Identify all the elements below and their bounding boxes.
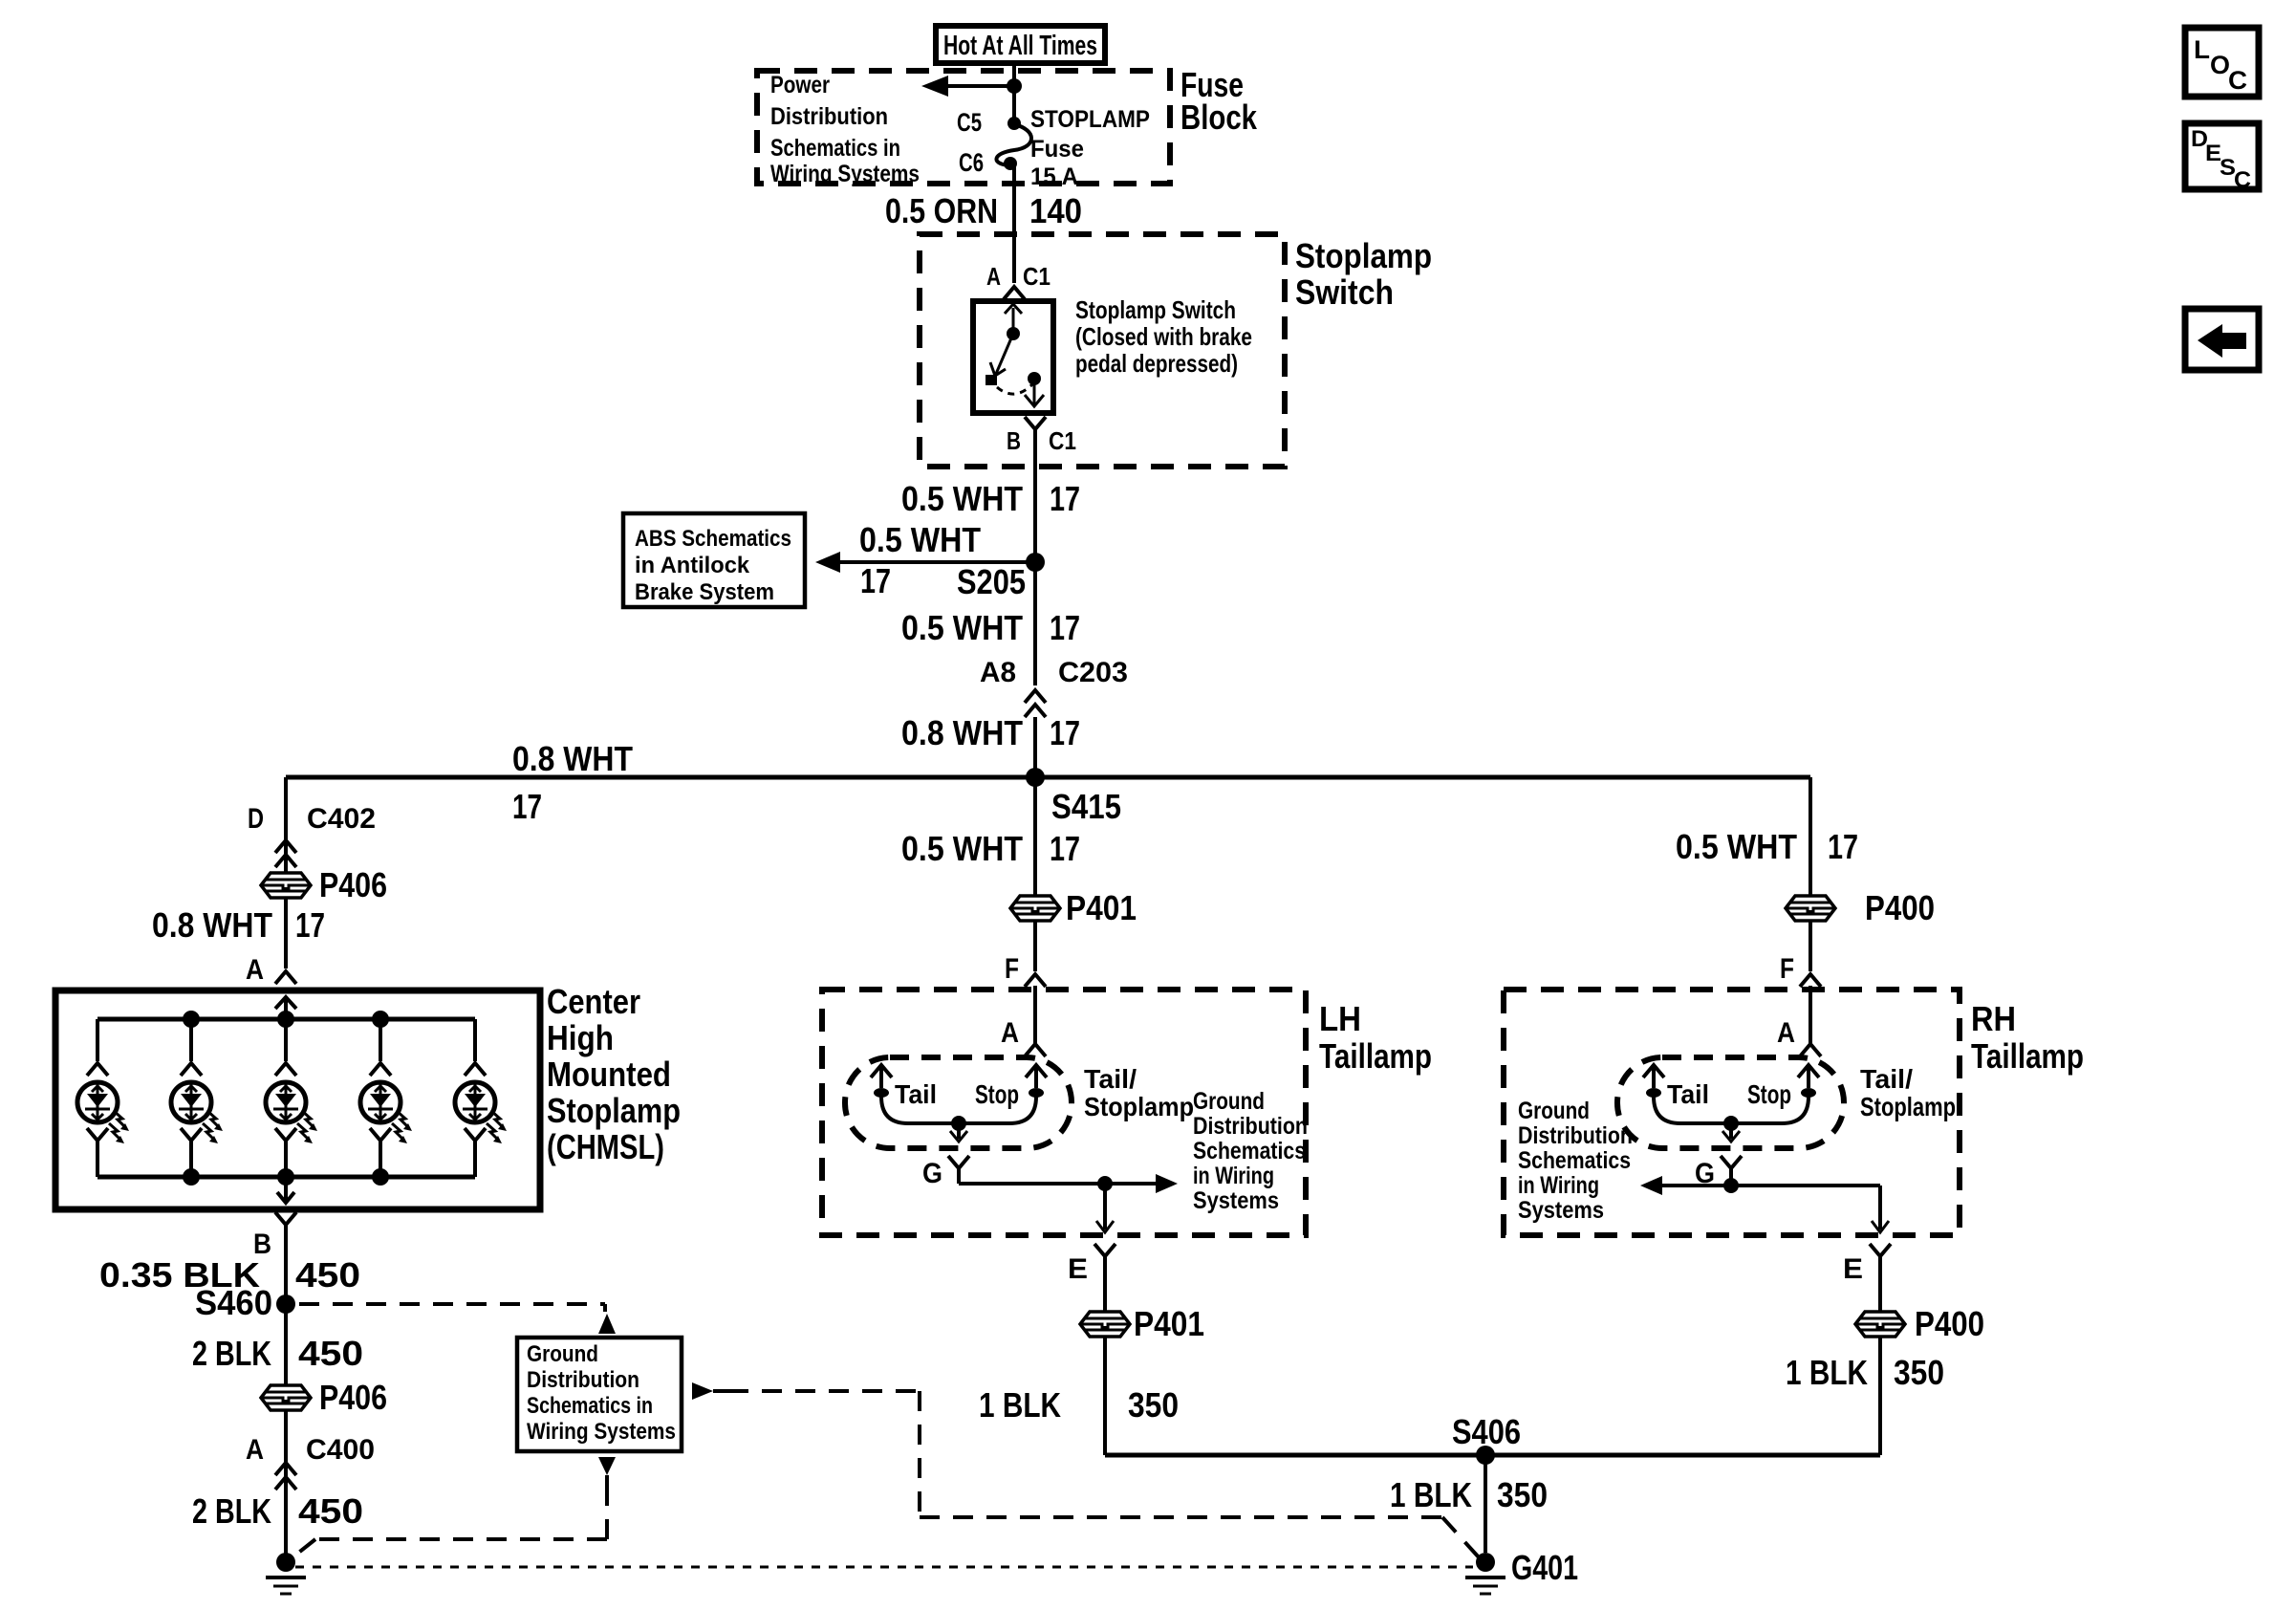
svg-text:A: A xyxy=(1777,1017,1795,1049)
svg-text:17: 17 xyxy=(1828,827,1858,866)
svg-text:C: C xyxy=(2228,66,2247,95)
svg-text:S460: S460 xyxy=(195,1283,272,1322)
svg-text:C1: C1 xyxy=(1023,262,1051,291)
svg-text:450: 450 xyxy=(298,1334,363,1373)
svg-text:350: 350 xyxy=(1497,1475,1548,1514)
svg-text:0.5 WHT: 0.5 WHT xyxy=(901,479,1023,518)
svg-text:Distribution: Distribution xyxy=(770,103,888,130)
svg-text:Stoplamp: Stoplamp xyxy=(1084,1092,1194,1121)
svg-text:17: 17 xyxy=(512,787,542,826)
svg-text:S205: S205 xyxy=(957,562,1026,601)
svg-text:0.8 WHT: 0.8 WHT xyxy=(152,905,272,945)
svg-text:Block: Block xyxy=(1180,98,1258,137)
svg-text:P406: P406 xyxy=(319,865,387,904)
svg-text:A: A xyxy=(986,262,1001,291)
svg-text:Ground: Ground xyxy=(1518,1098,1590,1124)
svg-text:ABS Schematics: ABS Schematics xyxy=(635,526,791,552)
svg-text:A: A xyxy=(246,954,264,986)
svg-text:Ground: Ground xyxy=(527,1341,598,1367)
svg-text:Tail/: Tail/ xyxy=(1084,1064,1137,1094)
svg-text:C203: C203 xyxy=(1058,657,1128,688)
svg-text:Stop: Stop xyxy=(975,1079,1019,1109)
svg-text:Distribution: Distribution xyxy=(1518,1122,1633,1149)
svg-text:0.8 WHT: 0.8 WHT xyxy=(901,713,1023,752)
svg-text:High: High xyxy=(547,1018,614,1057)
svg-text:0.5 WHT: 0.5 WHT xyxy=(1676,827,1797,866)
svg-text:Wiring Systems: Wiring Systems xyxy=(770,161,920,187)
svg-text:Stop: Stop xyxy=(1747,1079,1791,1109)
svg-text:C400: C400 xyxy=(306,1434,375,1466)
svg-text:Distribution: Distribution xyxy=(527,1367,639,1393)
svg-text:S406: S406 xyxy=(1452,1412,1521,1451)
svg-text:17: 17 xyxy=(1050,608,1080,647)
svg-text:A8: A8 xyxy=(980,657,1016,688)
svg-text:in Wiring: in Wiring xyxy=(1193,1163,1274,1189)
svg-text:P400: P400 xyxy=(1915,1304,1984,1343)
svg-text:0.8 WHT: 0.8 WHT xyxy=(512,739,633,778)
svg-text:L: L xyxy=(2194,35,2210,64)
svg-text:D: D xyxy=(248,803,264,835)
svg-text:Systems: Systems xyxy=(1518,1197,1604,1224)
svg-text:1 BLK: 1 BLK xyxy=(979,1385,1061,1425)
svg-text:15 A: 15 A xyxy=(1030,163,1078,190)
svg-text:(CHMSL): (CHMSL) xyxy=(547,1127,664,1166)
svg-text:1 BLK: 1 BLK xyxy=(1390,1475,1472,1514)
svg-text:0.5 WHT: 0.5 WHT xyxy=(859,520,981,559)
svg-text:0.5 ORN: 0.5 ORN xyxy=(885,191,998,230)
svg-text:F: F xyxy=(1780,953,1794,985)
svg-text:17: 17 xyxy=(1050,713,1080,752)
svg-text:E: E xyxy=(1843,1253,1863,1285)
svg-text:P401: P401 xyxy=(1134,1304,1204,1343)
svg-text:450: 450 xyxy=(295,1255,360,1295)
svg-text:C402: C402 xyxy=(307,803,376,835)
svg-text:2 BLK: 2 BLK xyxy=(192,1334,271,1373)
svg-text:C1: C1 xyxy=(1049,426,1076,455)
svg-text:(Closed with brake: (Closed with brake xyxy=(1075,322,1252,351)
svg-text:Tail: Tail xyxy=(1667,1079,1709,1109)
svg-text:P406: P406 xyxy=(319,1378,387,1417)
svg-text:F: F xyxy=(1005,953,1019,985)
svg-text:Center: Center xyxy=(547,982,640,1021)
svg-text:S415: S415 xyxy=(1051,787,1121,826)
svg-text:Stoplamp: Stoplamp xyxy=(1860,1092,1956,1121)
svg-text:Stoplamp Switch: Stoplamp Switch xyxy=(1075,295,1236,324)
svg-text:17: 17 xyxy=(295,905,325,945)
svg-text:Power: Power xyxy=(770,72,830,98)
svg-text:Taillamp: Taillamp xyxy=(1319,1036,1432,1076)
svg-text:Schematics: Schematics xyxy=(1518,1147,1631,1174)
svg-text:O: O xyxy=(2210,51,2230,79)
svg-text:350: 350 xyxy=(1894,1353,1944,1392)
svg-text:G: G xyxy=(922,1158,942,1189)
svg-text:in Antilock: in Antilock xyxy=(635,553,750,578)
svg-text:in Wiring: in Wiring xyxy=(1518,1172,1599,1199)
svg-text:LH: LH xyxy=(1319,999,1361,1038)
svg-text:Fuse: Fuse xyxy=(1030,136,1084,163)
svg-text:17: 17 xyxy=(860,561,891,600)
svg-text:17: 17 xyxy=(1050,479,1080,518)
svg-text:Tail/: Tail/ xyxy=(1860,1064,1913,1094)
svg-text:Systems: Systems xyxy=(1193,1187,1279,1214)
svg-text:G401: G401 xyxy=(1511,1548,1578,1587)
svg-text:0.5 WHT: 0.5 WHT xyxy=(901,608,1023,647)
svg-text:C: C xyxy=(2234,167,2251,193)
svg-text:Tail: Tail xyxy=(895,1079,937,1109)
svg-text:B: B xyxy=(1007,426,1021,455)
svg-text:Schematics in: Schematics in xyxy=(770,135,900,162)
svg-text:Stoplamp: Stoplamp xyxy=(1295,236,1432,275)
svg-text:17: 17 xyxy=(1050,829,1080,868)
svg-text:0.5 WHT: 0.5 WHT xyxy=(901,829,1023,868)
svg-text:P400: P400 xyxy=(1865,888,1935,927)
svg-text:Wiring Systems: Wiring Systems xyxy=(527,1419,676,1445)
svg-text:Distribution: Distribution xyxy=(1193,1113,1308,1140)
svg-text:Ground: Ground xyxy=(1193,1088,1265,1115)
svg-text:STOPLAMP: STOPLAMP xyxy=(1030,106,1150,133)
svg-text:C5: C5 xyxy=(957,108,982,137)
svg-text:Stoplamp: Stoplamp xyxy=(547,1091,681,1130)
svg-text:2 BLK: 2 BLK xyxy=(192,1491,271,1531)
svg-text:E: E xyxy=(1068,1253,1088,1285)
svg-text:Mounted: Mounted xyxy=(547,1055,671,1094)
svg-text:Switch: Switch xyxy=(1295,272,1394,312)
svg-text:450: 450 xyxy=(298,1491,363,1531)
svg-text:Hot At All Times: Hot At All Times xyxy=(943,31,1097,61)
svg-text:A: A xyxy=(246,1434,264,1466)
svg-text:RH: RH xyxy=(1971,999,2016,1038)
svg-text:Brake System: Brake System xyxy=(635,579,774,605)
svg-text:P401: P401 xyxy=(1066,888,1137,927)
svg-text:1 BLK: 1 BLK xyxy=(1786,1353,1868,1392)
svg-text:Schematics in: Schematics in xyxy=(527,1393,653,1419)
svg-text:C6: C6 xyxy=(959,148,984,177)
svg-text:140: 140 xyxy=(1029,191,1082,230)
svg-text:Taillamp: Taillamp xyxy=(1971,1036,2084,1076)
svg-text:350: 350 xyxy=(1128,1385,1179,1425)
svg-text:A: A xyxy=(1001,1017,1019,1049)
svg-text:Schematics: Schematics xyxy=(1193,1138,1306,1164)
svg-text:pedal depressed): pedal depressed) xyxy=(1075,349,1238,378)
